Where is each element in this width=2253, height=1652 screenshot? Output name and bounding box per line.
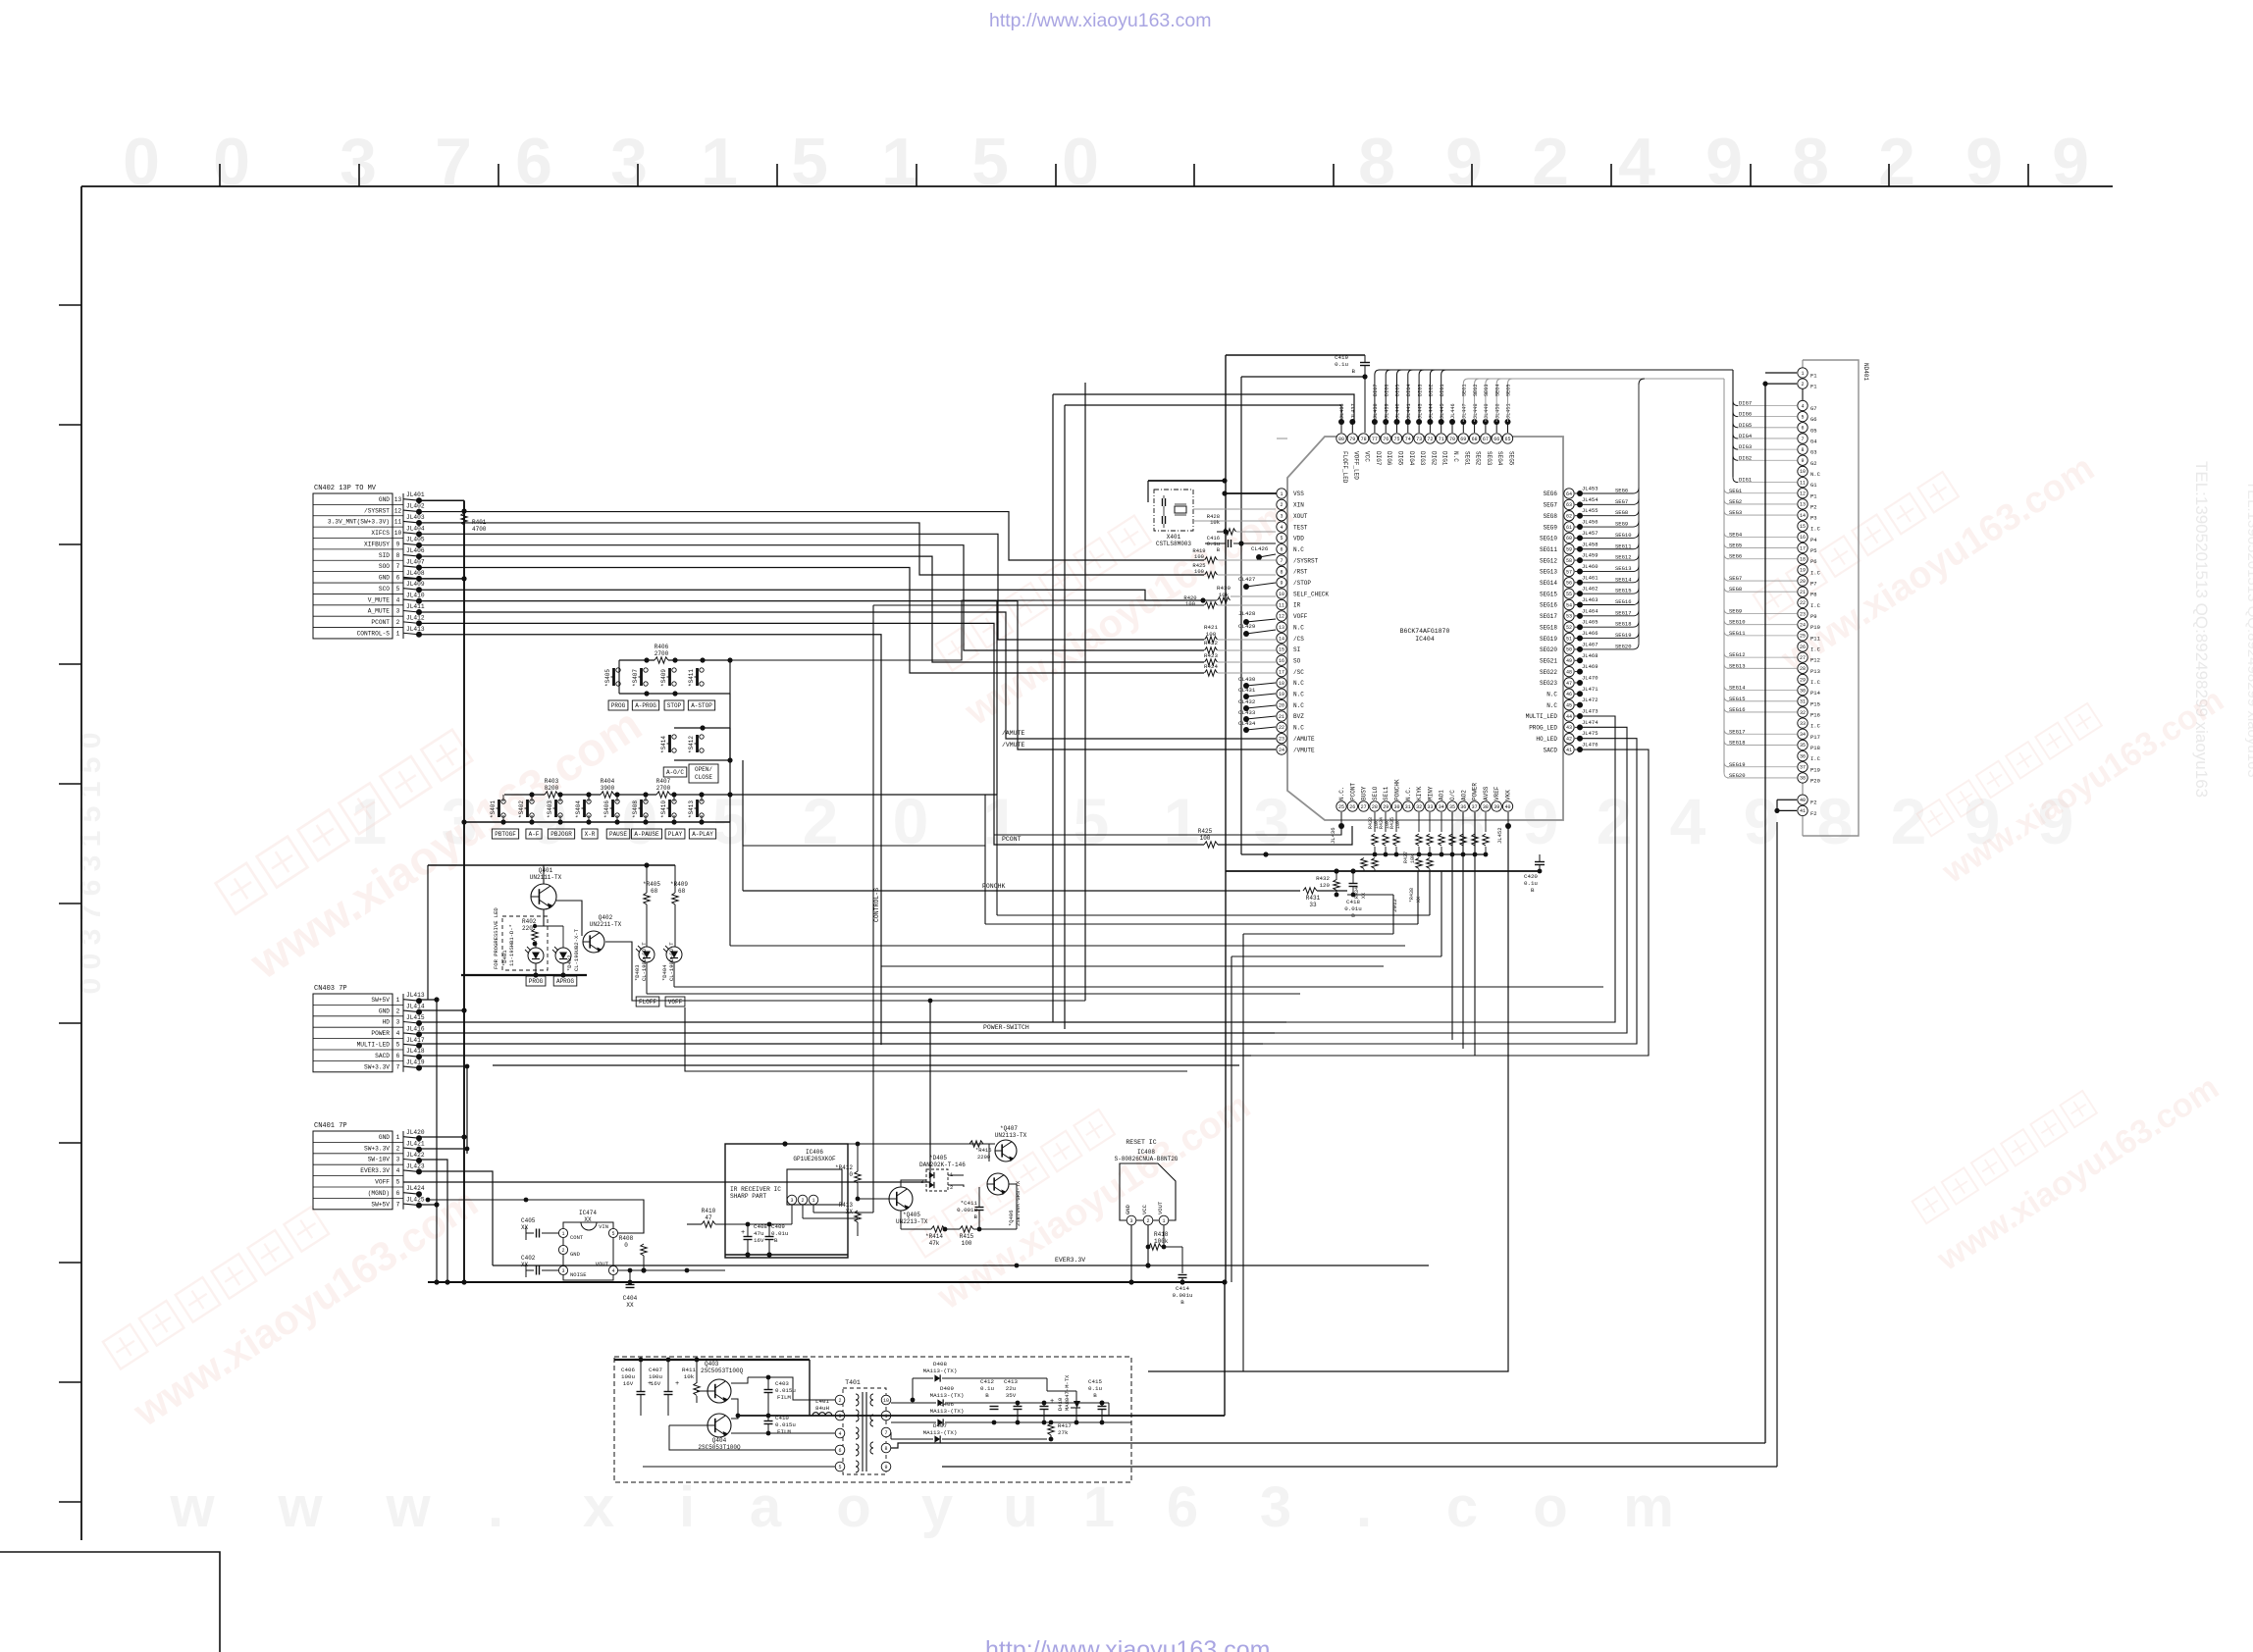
svg-text:AO1: AO1 [1439, 790, 1445, 800]
SEG net labels at connector [1724, 488, 1797, 779]
svg-text:8: 8 [1801, 447, 1804, 453]
svg-text:53: 53 [1566, 614, 1572, 620]
svg-text:6: 6 [396, 575, 400, 582]
svg-text:*S411: *S411 [688, 669, 695, 687]
svg-text:3: 3 [1129, 1218, 1132, 1224]
T401 pin6 [835, 1445, 845, 1455]
svg-text:SELO: SELO [1372, 786, 1379, 800]
svg-text:N.C: N.C [1293, 624, 1304, 631]
svg-text:1: 1 [396, 1134, 400, 1141]
svg-text:*D402: *D402 [566, 955, 573, 971]
svg-text:34: 34 [1800, 732, 1806, 738]
svg-text:/CS: /CS [1293, 636, 1304, 643]
svg-text:0: 0 [1062, 125, 1099, 199]
svg-text:SO: SO [1293, 657, 1301, 664]
svg-text:http://www.xiaoyu163.com: http://www.xiaoyu163.com [985, 1636, 1270, 1652]
svg-text:5: 5 [396, 1042, 400, 1049]
wire DIG bus vertical [1732, 370, 1734, 478]
svg-text:31: 31 [1405, 804, 1411, 810]
svg-text:JL409: JL409 [406, 581, 425, 588]
svg-text:N.C: N.C [1810, 471, 1821, 478]
svg-text:B: B [774, 1237, 778, 1244]
svg-text:100: 100 [1194, 553, 1204, 560]
svg-text:JL447: JL447 [1462, 403, 1468, 419]
svg-text:18: 18 [1279, 681, 1284, 687]
svg-text:.: . [488, 1475, 503, 1539]
svg-text:GND: GND [1125, 1204, 1131, 1214]
frame ruler ticks left [59, 305, 81, 1502]
svg-text:IC474: IC474 [579, 1210, 597, 1216]
svg-text:S-80826CNUA-B8NT2G: S-80826CNUA-B8NT2G [1115, 1156, 1179, 1162]
svg-text:11: 11 [1279, 602, 1284, 608]
svg-text:1: 1 [1164, 785, 1200, 857]
svg-text:2: 2 [561, 1248, 564, 1254]
IC404 right pins 64-41 [1526, 489, 1575, 754]
wire F2 return [891, 822, 1777, 1467]
capacitor electrolytic [1040, 1406, 1049, 1408]
svg-text:L401: L401 [815, 1398, 829, 1405]
wire SW3V long bus [493, 1064, 1239, 1066]
svg-text:11: 11 [1800, 480, 1806, 486]
svg-text:BVZ: BVZ [1293, 713, 1304, 720]
svg-text:JL417: JL417 [406, 1037, 425, 1044]
wire PONCHK [742, 846, 744, 891]
svg-text:34: 34 [1439, 804, 1444, 810]
svg-text:C405: C405 [521, 1217, 536, 1224]
svg-text:79: 79 [1349, 437, 1355, 442]
svg-text:w: w [169, 1475, 215, 1539]
key row2 labels [663, 767, 687, 777]
dashed box power section [614, 1357, 1131, 1482]
svg-text:JL446: JL446 [1450, 403, 1456, 419]
svg-text:10: 10 [1279, 592, 1284, 597]
svg-text:4: 4 [838, 1431, 841, 1437]
svg-text:14: 14 [1279, 636, 1284, 642]
svg-text:SEG11: SEG11 [1615, 542, 1632, 549]
svg-text:N.C: N.C [1452, 451, 1459, 462]
svg-text:SEG7: SEG7 [1615, 498, 1628, 505]
svg-text:JL469: JL469 [1582, 663, 1598, 670]
wire SEG bus riser [1639, 379, 1645, 385]
svg-text:SHARP PART: SHARP PART [730, 1193, 766, 1200]
svg-text:2: 2 [396, 619, 400, 626]
svg-text:0.1u: 0.1u [1524, 880, 1538, 887]
capacitor C404 [626, 1284, 635, 1286]
svg-text:JL452: JL452 [1496, 827, 1503, 844]
svg-text:PBJOGR: PBJOGR [550, 831, 572, 838]
svg-text:P8: P8 [1810, 592, 1817, 598]
svg-text:61: 61 [1566, 525, 1572, 531]
svg-text:3: 3 [396, 608, 400, 615]
svg-text:PROG: PROG [611, 702, 626, 709]
svg-text:75: 75 [1393, 437, 1399, 442]
svg-text:37: 37 [1472, 804, 1478, 810]
svg-text:DIG5: DIG5 [1397, 451, 1404, 466]
svg-text:.: . [1356, 1475, 1372, 1539]
svg-text:11: 11 [394, 519, 402, 526]
svg-text:1: 1 [1162, 1218, 1165, 1224]
svg-text:0.001u: 0.001u [1173, 1292, 1193, 1299]
svg-text:VSS: VSS [1293, 490, 1304, 497]
svg-text:OPEN/: OPEN/ [695, 766, 712, 773]
svg-text:100u: 100u [621, 1373, 635, 1380]
svg-text:IC408: IC408 [1137, 1149, 1155, 1156]
wire IC474 out [618, 1269, 687, 1271]
wire VOFF_LED net [1065, 405, 1341, 422]
svg-text:JL412: JL412 [406, 614, 425, 621]
svg-text:HO_LED: HO_LED [1536, 736, 1557, 743]
dashed box FOR PROGRESSIVE LED [502, 916, 548, 970]
svg-text:SEG4: SEG4 [1494, 385, 1500, 396]
svg-text:m: m [1623, 1475, 1674, 1539]
svg-text:XX: XX [846, 1209, 854, 1215]
svg-text:F2: F2 [1810, 810, 1817, 817]
svg-text:POWER: POWER [371, 1030, 390, 1037]
svg-text:JL440: JL440 [1395, 403, 1401, 419]
wire bus 1443 [738, 1415, 1225, 1417]
svg-text:JL436: JL436 [1330, 827, 1336, 844]
capacitor C414 0.001u [1181, 1247, 1183, 1273]
svg-text:2: 2 [1280, 502, 1283, 508]
svg-text:DIG2: DIG2 [1429, 385, 1435, 396]
svg-text:47k: 47k [929, 1240, 940, 1247]
svg-text:16V: 16V [754, 1237, 764, 1244]
svg-text:B: B [1352, 368, 1356, 375]
svg-text:SEG19: SEG19 [1540, 636, 1557, 643]
svg-text:JL466: JL466 [1582, 630, 1598, 637]
svg-text:47u: 47u [754, 1230, 763, 1237]
svg-text:UN2111-TX: UN2111-TX [530, 874, 562, 881]
svg-text:XIFBUSY: XIFBUSY [364, 541, 390, 547]
svg-text:52: 52 [1566, 625, 1572, 631]
switch S414 [672, 735, 676, 739]
svg-text:19: 19 [1800, 568, 1806, 574]
svg-text:1: 1 [561, 1231, 564, 1237]
svg-text:PBTOGF: PBTOGF [495, 831, 516, 838]
svg-text:SEG13: SEG13 [1540, 569, 1557, 576]
svg-text:0.015u: 0.015u [775, 1387, 796, 1394]
svg-text:G7: G7 [1810, 405, 1817, 412]
svg-text:78: 78 [1361, 437, 1367, 442]
svg-text:28: 28 [1372, 804, 1378, 810]
svg-text:N.C: N.C [1293, 680, 1304, 687]
wire key row3 top rail [504, 794, 545, 796]
wire VCC C419 net [1226, 354, 1365, 356]
svg-text:DIG4: DIG4 [1408, 451, 1415, 466]
svg-text:32: 32 [1800, 710, 1806, 716]
svg-text:64: 64 [1566, 491, 1572, 497]
svg-text:JL402: JL402 [406, 503, 425, 510]
svg-text:SID: SID [379, 552, 390, 559]
svg-text:24: 24 [1800, 622, 1806, 628]
svg-text:EVER3.3V: EVER3.3V [1055, 1257, 1085, 1264]
svg-text:C418: C418 [1346, 899, 1360, 905]
svg-text:R411: R411 [682, 1367, 696, 1373]
svg-text:1: 1 [351, 785, 388, 857]
wire POWER bus POWER-SWITCH [420, 1032, 1275, 1034]
svg-text:DIG1: DIG1 [1441, 451, 1448, 466]
svg-text:37: 37 [1800, 765, 1806, 771]
svg-text:JL421: JL421 [406, 1141, 425, 1148]
svg-text:*S406: *S406 [603, 800, 610, 818]
svg-text:6: 6 [1801, 426, 1804, 432]
frame ruler ticks top [220, 164, 2028, 186]
svg-text:9: 9 [1965, 125, 2003, 199]
frame border top [81, 185, 2113, 187]
svg-text:JL474: JL474 [1582, 719, 1598, 726]
pink watermark left-middle [204, 643, 651, 990]
svg-text:8: 8 [396, 552, 400, 559]
svg-text:7: 7 [435, 125, 472, 199]
svg-text:17: 17 [1800, 545, 1806, 551]
svg-text:2: 2 [396, 1007, 400, 1014]
svg-text:SEG5: SEG5 [1506, 385, 1512, 396]
svg-text:0.1u: 0.1u [1335, 361, 1348, 368]
svg-text:XX: XX [521, 1224, 529, 1231]
svg-text:120: 120 [1320, 882, 1331, 889]
svg-text:6: 6 [515, 125, 552, 199]
svg-text:9: 9 [2052, 125, 2089, 199]
svg-text:67: 67 [1483, 437, 1489, 442]
svg-text:JL413: JL413 [406, 626, 425, 633]
svg-text:*S409: *S409 [660, 669, 667, 687]
svg-text:65: 65 [1504, 437, 1510, 442]
svg-text:D406: D406 [940, 1401, 954, 1408]
svg-text:68: 68 [678, 888, 686, 895]
svg-text:*S414: *S414 [660, 736, 667, 753]
IC404 bottom pins 25-40 [1336, 779, 1513, 811]
svg-text:1: 1 [1801, 371, 1804, 377]
svg-text:B: B [1180, 1299, 1184, 1306]
svg-text:N.C: N.C [1293, 692, 1304, 698]
svg-text:X-R: X-R [585, 831, 596, 838]
svg-text:29: 29 [1800, 677, 1806, 683]
svg-text:PROG: PROG [529, 978, 544, 985]
svg-text:8: 8 [1817, 785, 1854, 857]
wire Q402 collector [605, 942, 1085, 1001]
resistor R416 2200 [969, 1141, 983, 1147]
svg-text:*Q406: *Q406 [1008, 1210, 1015, 1226]
wire A_MUTE to /AMUTE [419, 612, 1276, 739]
pink watermark right-upper [1744, 402, 2101, 681]
svg-text:SEG4: SEG4 [1496, 451, 1503, 466]
svg-text:5: 5 [838, 1465, 841, 1471]
svg-text:A-O/C: A-O/C [666, 769, 684, 776]
svg-text:2200: 2200 [977, 1154, 990, 1161]
wire key row2 rails [674, 727, 730, 729]
svg-text:SW-10V: SW-10V [368, 1157, 391, 1163]
svg-text:84uH: 84uH [815, 1405, 829, 1412]
svg-text:36: 36 [1800, 753, 1806, 759]
svg-text:15: 15 [1800, 524, 1806, 530]
svg-text:16: 16 [1279, 658, 1284, 664]
svg-text:B: B [1093, 1392, 1097, 1399]
svg-text:F2: F2 [1810, 800, 1817, 806]
svg-text:57: 57 [1566, 569, 1572, 575]
svg-text:MULTI-LED: MULTI-LED [357, 1042, 391, 1049]
svg-text:NOISE: NOISE [570, 1271, 587, 1278]
svg-text:P9: P9 [1810, 613, 1817, 620]
wire CN401 SW+3.3V [420, 1148, 467, 1150]
T401 pin7 [881, 1427, 891, 1437]
svg-text:C415: C415 [1088, 1378, 1102, 1385]
svg-text:w: w [277, 1475, 323, 1539]
wire IC408 GND down [1130, 1225, 1132, 1282]
svg-text:O/C: O/C [1449, 790, 1456, 800]
svg-text:2: 2 [1532, 125, 1569, 199]
svg-text:P2: P2 [1810, 503, 1817, 510]
svg-text:41: 41 [1566, 748, 1572, 753]
svg-text:1: 1 [983, 785, 1020, 857]
svg-text:P1: P1 [1810, 492, 1817, 499]
svg-text:DIG3: DIG3 [1417, 385, 1423, 396]
wire SW+3.3V [420, 1066, 467, 1154]
key row3 labels [492, 829, 518, 839]
svg-text:1: 1 [396, 630, 400, 637]
svg-text:JL475: JL475 [1582, 730, 1598, 737]
svg-text:SOO: SOO [379, 563, 390, 570]
svg-text:35: 35 [1800, 743, 1806, 749]
IC474 pin1 CONT [558, 1228, 567, 1237]
svg-text:12: 12 [1800, 491, 1806, 497]
svg-text:P19: P19 [1810, 766, 1820, 773]
svg-text:44: 44 [1566, 714, 1572, 720]
svg-text:DIG7: DIG7 [1375, 451, 1382, 466]
svg-text:68: 68 [651, 888, 658, 895]
svg-text:SEG6: SEG6 [1615, 488, 1628, 494]
wire MULTI_LED route [1286, 716, 1615, 1022]
switch S412 [700, 735, 704, 739]
svg-text:3: 3 [396, 1157, 400, 1163]
svg-text:P11: P11 [1810, 635, 1821, 642]
svg-text:JL454: JL454 [1582, 496, 1598, 503]
svg-text:1: 1 [1280, 491, 1283, 497]
IC IC404 B6CK74AFG1870 body [1287, 437, 1563, 820]
svg-text:27: 27 [1361, 804, 1367, 810]
svg-text:3: 3 [790, 1198, 793, 1204]
wire left pin verticals [1052, 394, 1054, 1022]
svg-text:71: 71 [1439, 437, 1444, 442]
svg-text:P4: P4 [1810, 537, 1817, 543]
svg-text:R404: R404 [601, 778, 615, 785]
svg-text:DIG5: DIG5 [1395, 385, 1401, 396]
switch S413 [700, 800, 704, 803]
pull-down resistor array R433-R444 10k [1372, 812, 1489, 856]
svg-text:o: o [836, 1475, 870, 1539]
wire PROG_LED route [1275, 727, 1627, 1033]
svg-text:9: 9 [884, 1465, 887, 1471]
svg-text:I.C: I.C [1810, 646, 1821, 653]
svg-text:POWER-SWITCH: POWER-SWITCH [983, 1024, 1029, 1031]
svg-text:JL425: JL425 [406, 1197, 425, 1204]
svg-text:68: 68 [1472, 437, 1478, 442]
wire F1 pins [1765, 372, 1797, 374]
svg-text:JL424: JL424 [406, 1185, 425, 1192]
svg-text:VOFF: VOFF [668, 999, 683, 1006]
svg-text:5: 5 [791, 125, 828, 199]
svg-text:50: 50 [1566, 647, 1572, 653]
svg-text:JL458: JL458 [1582, 541, 1598, 547]
svg-text:PROG_LED: PROG_LED [1529, 725, 1557, 732]
svg-text:JL463: JL463 [1582, 596, 1598, 603]
svg-text:C419: C419 [1335, 354, 1348, 361]
svg-text:7: 7 [396, 1063, 400, 1070]
wire CN401 EVER3.3V [420, 1171, 493, 1265]
svg-text:7: 7 [884, 1430, 887, 1436]
svg-text:X401: X401 [1167, 534, 1181, 541]
svg-text:Q401: Q401 [539, 867, 553, 874]
svg-text:24: 24 [1279, 748, 1284, 753]
svg-text:0: 0 [893, 785, 929, 857]
svg-text:C406: C406 [621, 1367, 635, 1373]
svg-text:77: 77 [1372, 437, 1378, 442]
svg-text:0 0 3 7 6 3 1 5 1 5 0: 0 0 3 7 6 3 1 5 1 5 0 [75, 733, 107, 995]
svg-text:SEG7: SEG7 [1544, 502, 1558, 509]
svg-text:*D405: *D405 [929, 1155, 947, 1162]
svg-text:6: 6 [396, 1053, 400, 1059]
svg-text:R415: R415 [960, 1233, 974, 1240]
svg-text:SI: SI [1293, 646, 1300, 653]
svg-text:MA113-(TX): MA113-(TX) [930, 1392, 965, 1399]
svg-text:16: 16 [1800, 535, 1806, 541]
svg-text:1: 1 [1083, 1475, 1115, 1539]
svg-text:CL432: CL432 [1238, 698, 1256, 705]
svg-text:63: 63 [1566, 502, 1572, 508]
svg-text:+: + [675, 1380, 679, 1388]
svg-text:3.3V_MNT(SW+3.3V): 3.3V_MNT(SW+3.3V) [328, 519, 390, 526]
svg-text:CN403 7P: CN403 7P [314, 985, 347, 993]
svg-text:(MGND): (MGND) [368, 1190, 390, 1197]
svg-text:B6CK74AFG1870: B6CK74AFG1870 [1400, 628, 1450, 635]
svg-text:JL407: JL407 [406, 558, 425, 565]
T401 pin5 [835, 1462, 845, 1471]
resistor R415 100 [960, 1226, 973, 1232]
svg-text:27: 27 [1800, 655, 1806, 661]
svg-text:23: 23 [1800, 611, 1806, 617]
wire CN401 VOFF [403, 1001, 930, 1182]
wire F1 black vertical [1764, 384, 1766, 1443]
svg-text:JL419: JL419 [406, 1059, 425, 1066]
svg-text:PAUSE: PAUSE [609, 831, 627, 838]
svg-text:D409: D409 [940, 1385, 954, 1392]
svg-text:AVSS: AVSS [1483, 786, 1490, 800]
svg-text:9: 9 [1523, 785, 1559, 857]
svg-text:VIN: VIN [599, 1223, 608, 1230]
svg-text:C420: C420 [1524, 873, 1538, 880]
svg-text:CL433: CL433 [1238, 709, 1256, 716]
svg-text:CL426: CL426 [1251, 545, 1269, 552]
switch S401 [501, 800, 505, 803]
svg-text:Q404: Q404 [712, 1437, 727, 1444]
svg-text:SEG3: SEG3 [1484, 385, 1490, 396]
wire VDD net [1241, 376, 1365, 378]
svg-text:100u: 100u [649, 1373, 662, 1380]
svg-text:A-PROG: A-PROG [635, 702, 656, 709]
T401 pin10 [881, 1395, 891, 1405]
svg-text:DAN202K-T-146: DAN202K-T-146 [919, 1162, 966, 1168]
svg-text:C413: C413 [1004, 1378, 1018, 1385]
svg-text:SW+5V: SW+5V [371, 1201, 390, 1208]
JL436 jumper [1338, 823, 1344, 829]
svg-text:2: 2 [1146, 1218, 1149, 1224]
switch S410 [672, 800, 676, 803]
svg-text:MULTI_LED: MULTI_LED [1526, 713, 1558, 720]
svg-text:ND401: ND401 [1862, 363, 1869, 381]
svg-text:P3: P3 [1810, 515, 1817, 522]
svg-text:SEG8: SEG8 [1615, 509, 1628, 516]
wire CN402 pin5 route [419, 590, 1204, 600]
transistor Q406 [987, 1173, 1009, 1195]
